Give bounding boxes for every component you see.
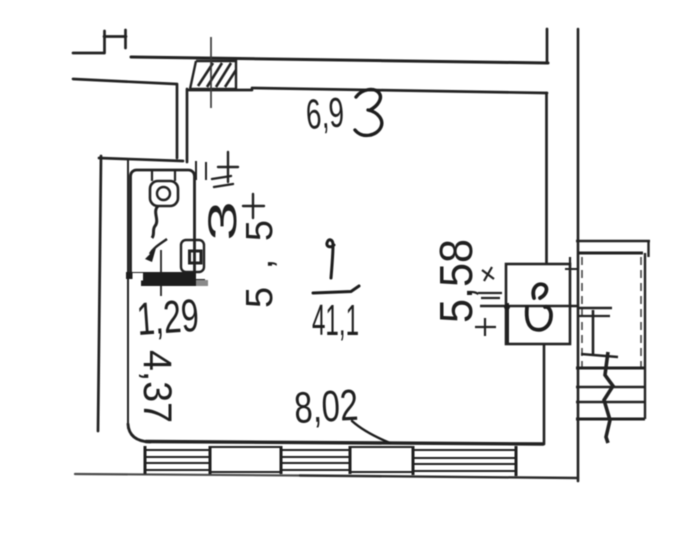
svg-text:8,02: 8,02	[293, 381, 359, 433]
svg-text:5,58: 5,58	[430, 239, 481, 323]
svg-text:41,1: 41,1	[312, 296, 359, 345]
svg-text:6,9: 6,9	[304, 88, 345, 138]
svg-text:3: 3	[200, 201, 245, 241]
svg-text:1,29: 1,29	[135, 289, 200, 345]
svg-text:4,37: 4,37	[135, 350, 179, 423]
svg-text:5,5: 5,5	[239, 220, 281, 308]
